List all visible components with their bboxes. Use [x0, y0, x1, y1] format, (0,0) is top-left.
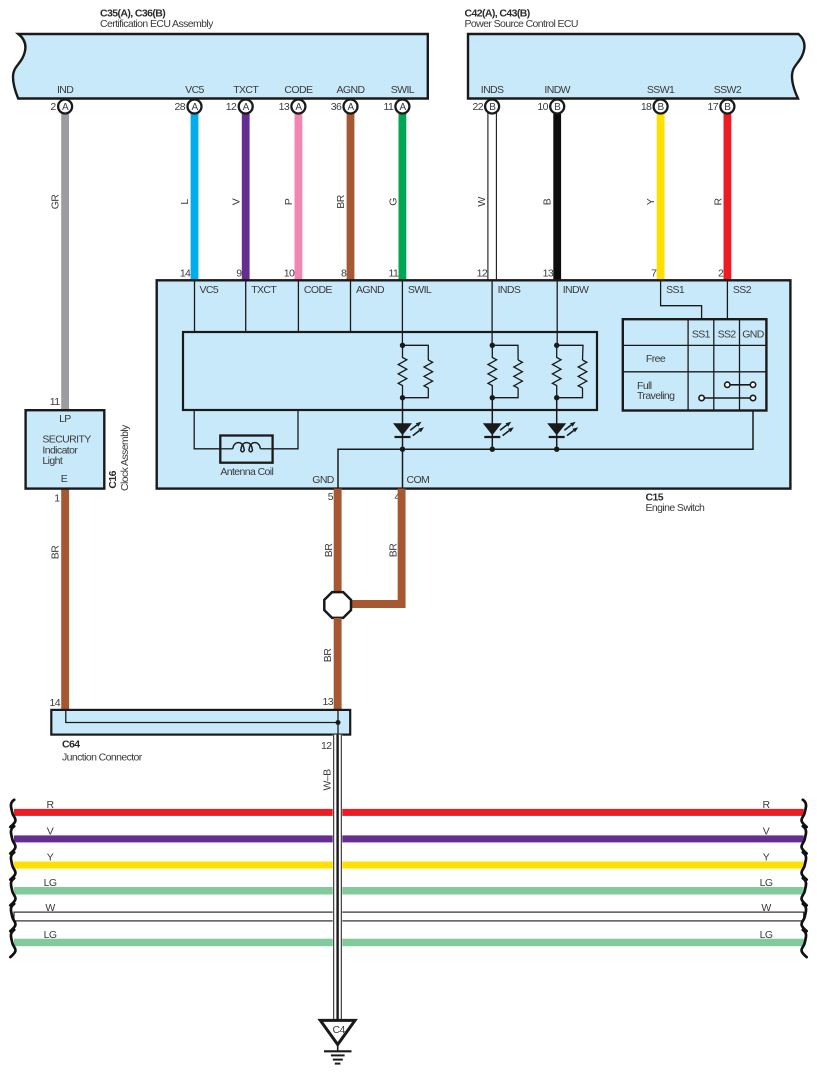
bus bar R (red) — [14, 799, 804, 816]
svg-text:BR: BR — [322, 648, 334, 662]
svg-text:V: V — [231, 198, 243, 205]
svg-text:5: 5 — [328, 491, 334, 503]
svg-text:C16: C16 — [107, 470, 119, 488]
svg-text:Light: Light — [42, 455, 62, 467]
svg-text:A: A — [191, 102, 198, 113]
svg-text:Traveling: Traveling — [637, 390, 675, 402]
svg-text:P: P — [283, 198, 295, 205]
wire SS2 to switch table — [726, 280, 728, 319]
junction octagon J1 — [324, 592, 351, 618]
svg-text:LG: LG — [760, 877, 773, 889]
svg-text:12: 12 — [321, 740, 332, 752]
wire P (CODE) — [283, 112, 302, 280]
svg-text:CODE: CODE — [304, 284, 333, 296]
svg-text:11: 11 — [50, 396, 60, 408]
Security Indicator Light box C16 — [26, 396, 131, 505]
wire BR (GND pin 5 to junction) — [323, 489, 342, 593]
junction connector C64 — [50, 696, 351, 763]
wire SS1 to switch table — [661, 280, 702, 319]
engine switch C15 box — [157, 280, 791, 514]
wire INDS to resistor R2 — [491, 280, 493, 345]
terminal divider wire TXCT — [245, 280, 247, 333]
torn edge marks right of bus bars — [801, 800, 806, 957]
svg-text:L: L — [179, 199, 191, 205]
svg-text:18: 18 — [641, 101, 652, 113]
svg-text:V: V — [763, 826, 770, 838]
bus bar LG (light green) — [14, 877, 804, 894]
LED ground bus wire — [338, 411, 753, 489]
svg-text:28: 28 — [175, 101, 186, 113]
svg-text:B: B — [554, 102, 561, 113]
svg-text:R: R — [763, 799, 771, 811]
resistor pair R3 (INDW) — [552, 343, 586, 401]
svg-text:LG: LG — [44, 877, 57, 889]
svg-text:22: 22 — [473, 101, 484, 113]
pin 11 connector A (SWIL) — [383, 100, 409, 114]
ECU C35/C36 Certification ECU Assembly box — [13, 8, 428, 99]
switch contact SS2-GND — [725, 382, 756, 387]
wire R (SSW2) — [712, 112, 731, 280]
ground symbol — [324, 1045, 352, 1064]
svg-text:W: W — [45, 902, 55, 914]
svg-text:INDS: INDS — [481, 84, 504, 96]
svg-text:SS2: SS2 — [733, 284, 752, 296]
svg-text:13: 13 — [323, 696, 334, 708]
pin 36 connector A (AGND) — [331, 100, 358, 114]
wire BR (COM pin 4 to junction) — [352, 489, 402, 604]
engine switch terminal labels — [200, 284, 752, 296]
svg-text:7: 7 — [651, 268, 657, 280]
pin 2 connector A (IND) — [50, 100, 72, 114]
svg-text:GND: GND — [742, 328, 765, 340]
svg-text:INDS: INDS — [498, 284, 521, 296]
svg-text:B: B — [724, 102, 731, 113]
svg-text:VC5: VC5 — [200, 284, 219, 296]
terminal divider wire VC5 — [194, 280, 196, 333]
svg-text:TXCT: TXCT — [251, 284, 277, 296]
svg-text:10: 10 — [537, 101, 548, 113]
internal unit box — [183, 332, 597, 410]
svg-text:INDW: INDW — [544, 84, 570, 96]
svg-text:GR: GR — [50, 194, 62, 210]
resistor pair R1 (SWIL) — [398, 343, 432, 401]
wire SWIL to resistor R1 — [401, 280, 403, 345]
wire V (TXCT) — [231, 112, 250, 280]
bus bar W (white) — [14, 902, 804, 921]
svg-text:Y: Y — [47, 852, 54, 864]
wire W (INDS) white wire — [476, 112, 496, 280]
bus bar V (violet) — [14, 826, 804, 843]
svg-text:Free: Free — [646, 353, 666, 365]
svg-text:AGND: AGND — [356, 284, 385, 296]
svg-text:Y: Y — [763, 852, 770, 864]
wire B (INDW) — [542, 112, 561, 280]
svg-text:8: 8 — [341, 268, 347, 280]
pin 18 connector B (SSW1) — [641, 100, 668, 114]
svg-text:Y: Y — [645, 198, 657, 205]
svg-text:Junction Connector: Junction Connector — [62, 751, 143, 763]
wire G (SWIL) — [388, 112, 407, 280]
torn edge marks left of bus bars — [10, 800, 15, 957]
svg-text:11: 11 — [388, 268, 398, 280]
svg-text:R: R — [47, 799, 55, 811]
svg-text:Certification ECU Assembly: Certification ECU Assembly — [100, 18, 214, 30]
ground connector C4 triangle — [320, 1020, 355, 1044]
pin 13 connector A (CODE) — [279, 100, 306, 114]
LED D1 (SWIL) — [393, 398, 424, 452]
svg-text:GND: GND — [312, 474, 335, 486]
svg-text:W: W — [761, 902, 771, 914]
svg-text:E: E — [61, 473, 68, 485]
svg-text:9: 9 — [236, 268, 242, 280]
svg-text:13: 13 — [279, 101, 290, 113]
svg-text:AGND: AGND — [337, 84, 366, 96]
LED D2 (INDS) — [483, 398, 514, 452]
svg-text:TXCT: TXCT — [233, 84, 259, 96]
wire BR (AGND) — [335, 112, 354, 280]
svg-text:Power Source Control ECU: Power Source Control ECU — [465, 18, 578, 30]
svg-text:A: A — [62, 102, 69, 113]
svg-text:A: A — [295, 102, 302, 113]
bus bar Y (yellow) — [14, 852, 804, 869]
svg-text:36: 36 — [331, 101, 342, 113]
switch position table — [623, 319, 767, 410]
resistor pair R2 (INDS) — [488, 343, 522, 401]
svg-text:2: 2 — [50, 101, 56, 113]
svg-text:VC5: VC5 — [185, 84, 204, 96]
wire COM pin lead — [402, 449, 404, 488]
svg-text:W: W — [476, 197, 488, 207]
svg-text:14: 14 — [50, 697, 61, 709]
svg-text:BR: BR — [50, 545, 62, 559]
svg-text:A: A — [399, 102, 406, 113]
pin 22 connector B (INDS) — [473, 100, 500, 114]
svg-text:SSW2: SSW2 — [714, 84, 742, 96]
svg-text:LP: LP — [59, 413, 71, 425]
wire BR (junction to C64 pin 13) — [322, 618, 342, 710]
svg-text:C64: C64 — [62, 738, 80, 750]
svg-text:SS1: SS1 — [666, 284, 685, 296]
svg-text:A: A — [243, 102, 250, 113]
terminal divider wire CODE — [297, 280, 299, 333]
svg-text:1: 1 — [54, 493, 60, 505]
wire Y (SSW1) — [645, 112, 664, 280]
terminal divider wire AGND — [350, 280, 352, 333]
svg-text:SSW1: SSW1 — [647, 84, 675, 96]
svg-text:Engine Switch: Engine Switch — [646, 502, 705, 514]
svg-text:SWIL: SWIL — [408, 284, 432, 296]
svg-text:12: 12 — [226, 101, 237, 113]
svg-text:B: B — [658, 102, 665, 113]
pin 17 connector B (SSW2) — [708, 100, 735, 114]
LED D3 (INDW) — [547, 398, 578, 452]
svg-text:B: B — [489, 102, 496, 113]
svg-text:V: V — [47, 826, 54, 838]
svg-text:W–B: W–B — [322, 769, 334, 791]
svg-text:LG: LG — [760, 929, 773, 941]
svg-text:IND: IND — [57, 84, 74, 96]
svg-text:R: R — [712, 197, 724, 205]
ECU C42/C43 Power Source Control ECU box — [465, 8, 805, 99]
wire L (VC5) — [179, 112, 198, 280]
antenna coil L1 — [194, 411, 298, 478]
svg-text:INDW: INDW — [563, 284, 589, 296]
svg-text:LG: LG — [44, 929, 57, 941]
svg-text:12: 12 — [477, 268, 488, 280]
svg-text:BR: BR — [323, 543, 335, 557]
wire INDW to resistor R3 — [556, 280, 558, 345]
svg-text:C4: C4 — [332, 1024, 345, 1036]
switch contact SS1-GND — [699, 395, 756, 400]
GND / COM pin labels — [312, 474, 429, 503]
svg-text:Antenna Coil: Antenna Coil — [220, 466, 273, 478]
svg-text:11: 11 — [383, 101, 393, 113]
engine switch pin numbers above box — [180, 268, 724, 280]
svg-text:13: 13 — [543, 268, 554, 280]
svg-text:A: A — [347, 102, 354, 113]
bus bar LG2 (light green) — [14, 929, 804, 946]
svg-text:CODE: CODE — [284, 84, 313, 96]
svg-text:Clock Assembly: Clock Assembly — [119, 424, 131, 491]
svg-text:BR: BR — [388, 543, 400, 557]
pin 10 connector B (INDW) — [537, 100, 564, 114]
svg-text:17: 17 — [708, 101, 719, 113]
svg-text:2: 2 — [718, 268, 724, 280]
svg-text:SWIL: SWIL — [391, 84, 415, 96]
svg-text:SS2: SS2 — [718, 328, 737, 340]
pin 12 connector A (TXCT) — [226, 100, 253, 114]
svg-text:BR: BR — [335, 194, 347, 208]
wire GR (IND to Security Indicator Light) — [50, 112, 70, 411]
svg-text:COM: COM — [407, 474, 430, 486]
wire W-B (C64 pin 12 to ground C4) — [322, 735, 343, 1020]
svg-text:B: B — [542, 198, 554, 205]
svg-text:10: 10 — [284, 268, 295, 280]
svg-text:SS1: SS1 — [692, 328, 711, 340]
svg-text:G: G — [388, 198, 400, 206]
wire BR (Security light E to C64 pin 14) — [50, 489, 69, 710]
svg-text:14: 14 — [180, 268, 191, 280]
pin 28 connector A (VC5) — [175, 100, 202, 114]
